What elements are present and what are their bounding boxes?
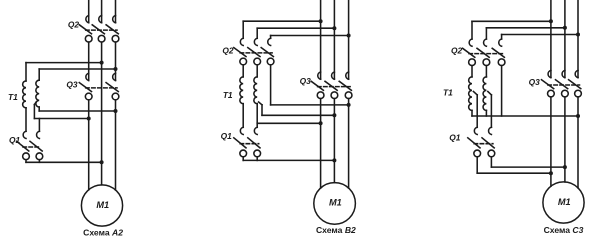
contactor Q1 pole 2 (scheme 3) bbox=[482, 127, 495, 156]
transformer T1 left winding (scheme 1) bbox=[23, 63, 26, 132]
label T1 (scheme 2) bbox=[223, 90, 233, 100]
contactor Q3 pole 1 (scheme 3) bbox=[542, 70, 555, 97]
wire T1 left winding top to L2 bbox=[26, 62, 102, 64]
junction dot L3 branch (scheme 2) bbox=[347, 34, 351, 38]
junction dot L3 / H1 (scheme 3) bbox=[576, 114, 580, 118]
label Q1 (scheme 3) bbox=[449, 132, 461, 142]
mechanical link Q1 (scheme 3) bbox=[474, 143, 493, 145]
contactor Q1 pole 2 (scheme 1) bbox=[30, 131, 43, 159]
contactor Q2 pole 1 (scheme 2) bbox=[234, 38, 247, 65]
wire T1 tap (scheme 2) bbox=[259, 102, 262, 115]
contactor Q2 pole 3 (scheme 3) bbox=[492, 39, 505, 66]
junction dot L1 branch (scheme 3) bbox=[549, 19, 553, 23]
wire Q1 output to L2 (scheme 1) bbox=[26, 160, 102, 163]
svg-text:Q1: Q1 bbox=[449, 132, 461, 142]
svg-text:T1: T1 bbox=[8, 92, 18, 102]
svg-text:Q2: Q2 bbox=[451, 46, 463, 56]
label T1 (scheme 1) bbox=[8, 92, 18, 102]
svg-text:T1: T1 bbox=[443, 87, 453, 97]
svg-text:M1: M1 bbox=[329, 198, 342, 208]
wire branch L1 to Q2 pole 1 (scheme 2) bbox=[243, 21, 320, 38]
wire branch L3 to Q2 pole 3 (scheme 2) bbox=[271, 36, 349, 39]
svg-text:Схема А2: Схема А2 bbox=[83, 227, 123, 237]
wire Q1 output to L2 (scheme 2) bbox=[243, 157, 334, 161]
wire branch L1 to Q2 pole 1 (scheme 3) bbox=[472, 21, 551, 39]
svg-text:Q1: Q1 bbox=[221, 131, 233, 141]
junction dot L1 / H3 (scheme 2) bbox=[319, 121, 323, 125]
mechanical link Q2 (scheme 3) bbox=[469, 53, 503, 55]
contactor Q2 pole 1 (scheme 1) bbox=[79, 16, 92, 43]
mechanical link Q2 (scheme 1) bbox=[86, 29, 117, 31]
wire T1 tap 2 (scheme 3) bbox=[488, 92, 492, 128]
wire phase line L3 (scheme 2) bbox=[348, 0, 350, 188]
transformer T1 right winding (scheme 3) bbox=[483, 66, 486, 116]
junction dot L3 / T1 right winding bbox=[114, 67, 118, 71]
junction dot L2 branch (scheme 2) bbox=[332, 26, 336, 30]
svg-text:Схема В2: Схема В2 bbox=[316, 225, 356, 235]
svg-text:Q3: Q3 bbox=[529, 77, 541, 87]
contactor Q1 pole 2 (scheme 2) bbox=[248, 127, 261, 156]
contactor Q2 pole 2 (scheme 2) bbox=[248, 38, 261, 65]
wire T1 tap bbox=[34, 102, 36, 119]
transformer T1 right winding (scheme 2) bbox=[254, 65, 257, 127]
wire Q1 pole 1 output to L1 (scheme 3) bbox=[477, 157, 551, 173]
svg-text:Q2: Q2 bbox=[68, 19, 80, 29]
mechanical link Q1 (scheme 2) bbox=[240, 143, 259, 145]
wire phase line L2 (scheme 3) bbox=[564, 0, 566, 182]
wire phase line L1 (scheme 3) bbox=[550, 0, 552, 186]
label T1 (scheme 3) bbox=[443, 87, 453, 97]
wire phase line L1 (scheme 1) bbox=[88, 0, 90, 190]
mechanical link Q3 (scheme 1) bbox=[86, 87, 117, 89]
junction dot L2 / Q1 output (scheme 2) bbox=[332, 158, 336, 162]
transformer T1 left winding (scheme 2) bbox=[240, 65, 243, 127]
junction dot L3 branch (scheme 3) bbox=[576, 33, 580, 37]
wire Q1 pole 2 output to L2 (scheme 3) bbox=[491, 157, 565, 167]
contactor Q1 pole 1 (scheme 3) bbox=[468, 127, 481, 156]
junction dot L1 / wire B bbox=[87, 117, 91, 121]
label Q3 (scheme 2) bbox=[300, 76, 312, 86]
contactor Q2 pole 2 (scheme 3) bbox=[477, 39, 490, 66]
contactor Q3 pole 3 (scheme 3) bbox=[569, 70, 582, 97]
mechanical link Q2 (scheme 2) bbox=[240, 52, 272, 54]
svg-text:M1: M1 bbox=[96, 200, 109, 210]
svg-text:Схема С3: Схема С3 bbox=[544, 225, 584, 235]
contactor Q1 pole 1 (scheme 2) bbox=[234, 127, 247, 156]
label Q3 (scheme 1) bbox=[66, 80, 78, 90]
contactor Q3 pole 2 (scheme 2) bbox=[325, 72, 338, 99]
wire Q1 pole 2 feed (scheme 1) bbox=[38, 119, 40, 132]
junction dot L2 branch (scheme 3) bbox=[563, 26, 567, 30]
wire branch L3 to Q2 pole 3 (scheme 3) bbox=[502, 35, 578, 40]
contactor Q2 pole 2 (scheme 1) bbox=[92, 16, 105, 43]
contactor Q2 pole 3 (scheme 2) bbox=[261, 38, 274, 65]
junction dot L3 / H1 (scheme 2) bbox=[347, 103, 351, 107]
label Q1 (scheme 2) bbox=[221, 131, 233, 141]
contactor Q2 pole 3 (scheme 1) bbox=[106, 16, 119, 43]
junction dot L3 / wire A bbox=[114, 109, 118, 113]
wire phase line L1 (scheme 2) bbox=[320, 0, 322, 188]
svg-text:M1: M1 bbox=[558, 197, 571, 207]
label Q1 (scheme 1) bbox=[9, 135, 21, 145]
svg-text:Q1: Q1 bbox=[9, 135, 21, 145]
contactor Q3 pole 2 (scheme 3) bbox=[556, 70, 569, 97]
contactor Q3 pole 2 (scheme 1) bbox=[106, 73, 119, 100]
motor M1 (scheme 3) bbox=[543, 182, 584, 223]
wire B — tap to L1 bbox=[34, 118, 88, 120]
wire H1 — winding bottoms to L3 (scheme 3) bbox=[472, 66, 578, 116]
wire H2 — tap to L2 (scheme 2) bbox=[262, 114, 334, 116]
contactor Q3 pole 1 (scheme 1) bbox=[79, 73, 92, 100]
wire phase line L2 (scheme 1) bbox=[101, 0, 103, 185]
wire A — T1 right winding bottom to L3 bbox=[39, 110, 115, 112]
svg-text:Q2: Q2 bbox=[222, 46, 234, 56]
caption Схема А2 bbox=[83, 227, 123, 237]
motor M1 (scheme 1) bbox=[81, 185, 122, 226]
caption Схема С3 bbox=[544, 225, 584, 235]
wire T1 tap 1 (scheme 3) bbox=[473, 92, 477, 128]
wire phase line L3 (scheme 1) bbox=[115, 0, 117, 190]
junction dot L1 branch (scheme 2) bbox=[319, 19, 323, 23]
transformer T1 right winding (scheme 1) bbox=[36, 69, 39, 111]
junction dot L2 / T1 left winding bbox=[100, 61, 104, 65]
wire H3 — winding bottom to L1 (scheme 2) bbox=[257, 122, 320, 124]
label Q2 (scheme 3) bbox=[451, 46, 463, 56]
label Q3 (scheme 3) bbox=[529, 77, 541, 87]
junction dot L2 / Q1 output (scheme 1) bbox=[100, 160, 104, 164]
transformer T1 left winding (scheme 3) bbox=[469, 66, 472, 116]
wire H1 — Q2 pole 3 to L3 (scheme 2) bbox=[271, 65, 349, 105]
contactor Q3 pole 3 (scheme 2) bbox=[339, 72, 352, 99]
svg-text:Q3: Q3 bbox=[66, 80, 78, 90]
contactor Q1 pole 1 (scheme 1) bbox=[17, 131, 30, 159]
contactor Q3 pole 1 (scheme 2) bbox=[311, 72, 324, 99]
wire branch L2 to Q2 pole 2 (scheme 2) bbox=[257, 28, 334, 38]
label Q2 (scheme 1) bbox=[68, 19, 80, 29]
wire T1 right winding top to L3 bbox=[39, 68, 115, 70]
mechanical link Q1 (scheme 1) bbox=[23, 146, 41, 148]
svg-text:Q3: Q3 bbox=[300, 76, 312, 86]
contactor Q2 pole 1 (scheme 3) bbox=[463, 39, 476, 66]
junction dot L2 / Q1 pole 2 (scheme 3) bbox=[563, 165, 567, 169]
wire phase line L2 (scheme 2) bbox=[333, 0, 335, 183]
caption Схема В2 bbox=[316, 225, 356, 235]
svg-text:T1: T1 bbox=[223, 90, 233, 100]
motor M1 (scheme 2) bbox=[314, 183, 356, 225]
mechanical link Q3 (scheme 2) bbox=[318, 86, 351, 88]
wire branch L2 to Q2 pole 2 (scheme 3) bbox=[486, 28, 565, 39]
junction dot L2 / H2 (scheme 2) bbox=[332, 113, 336, 117]
wire phase line L3 (scheme 3) bbox=[577, 0, 579, 188]
junction dot L1 / Q1 pole 1 (scheme 3) bbox=[549, 171, 553, 175]
label Q2 (scheme 2) bbox=[222, 46, 234, 56]
mechanical link Q3 (scheme 3) bbox=[548, 84, 580, 86]
